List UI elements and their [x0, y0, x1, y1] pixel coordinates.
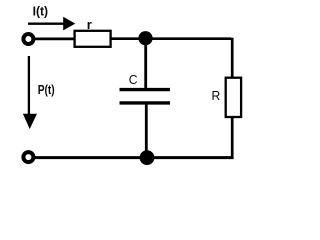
wire: capacitor bottom lead	[145, 103, 148, 158]
node: top junction	[138, 31, 152, 45]
wire: right branch vertical (through R position)	[231, 38, 234, 158]
svg-text:R: R	[212, 88, 221, 103]
wire: top-left terminal to resistor r	[33, 38, 75, 41]
terminal: top-left input	[23, 34, 33, 44]
current arrow I(t)	[28, 17, 75, 31]
svg-text:r: r	[87, 17, 92, 32]
svg-text:P(t): P(t)	[38, 82, 55, 97]
node: bottom junction	[140, 150, 155, 165]
svg-text:C: C	[129, 72, 138, 87]
wire: capacitor top lead	[144, 38, 147, 90]
resistor r	[75, 31, 111, 47]
capacitor C top plate	[120, 88, 171, 91]
svg-text:I(t): I(t)	[33, 3, 49, 18]
wire: bottom rail	[33, 156, 234, 159]
wire: resistor r to top-right corner	[110, 37, 231, 40]
power arrow P(t)	[23, 56, 37, 129]
resistor R	[226, 78, 241, 117]
terminal: bottom-left input	[23, 152, 33, 162]
capacitor C bottom plate	[120, 101, 171, 104]
